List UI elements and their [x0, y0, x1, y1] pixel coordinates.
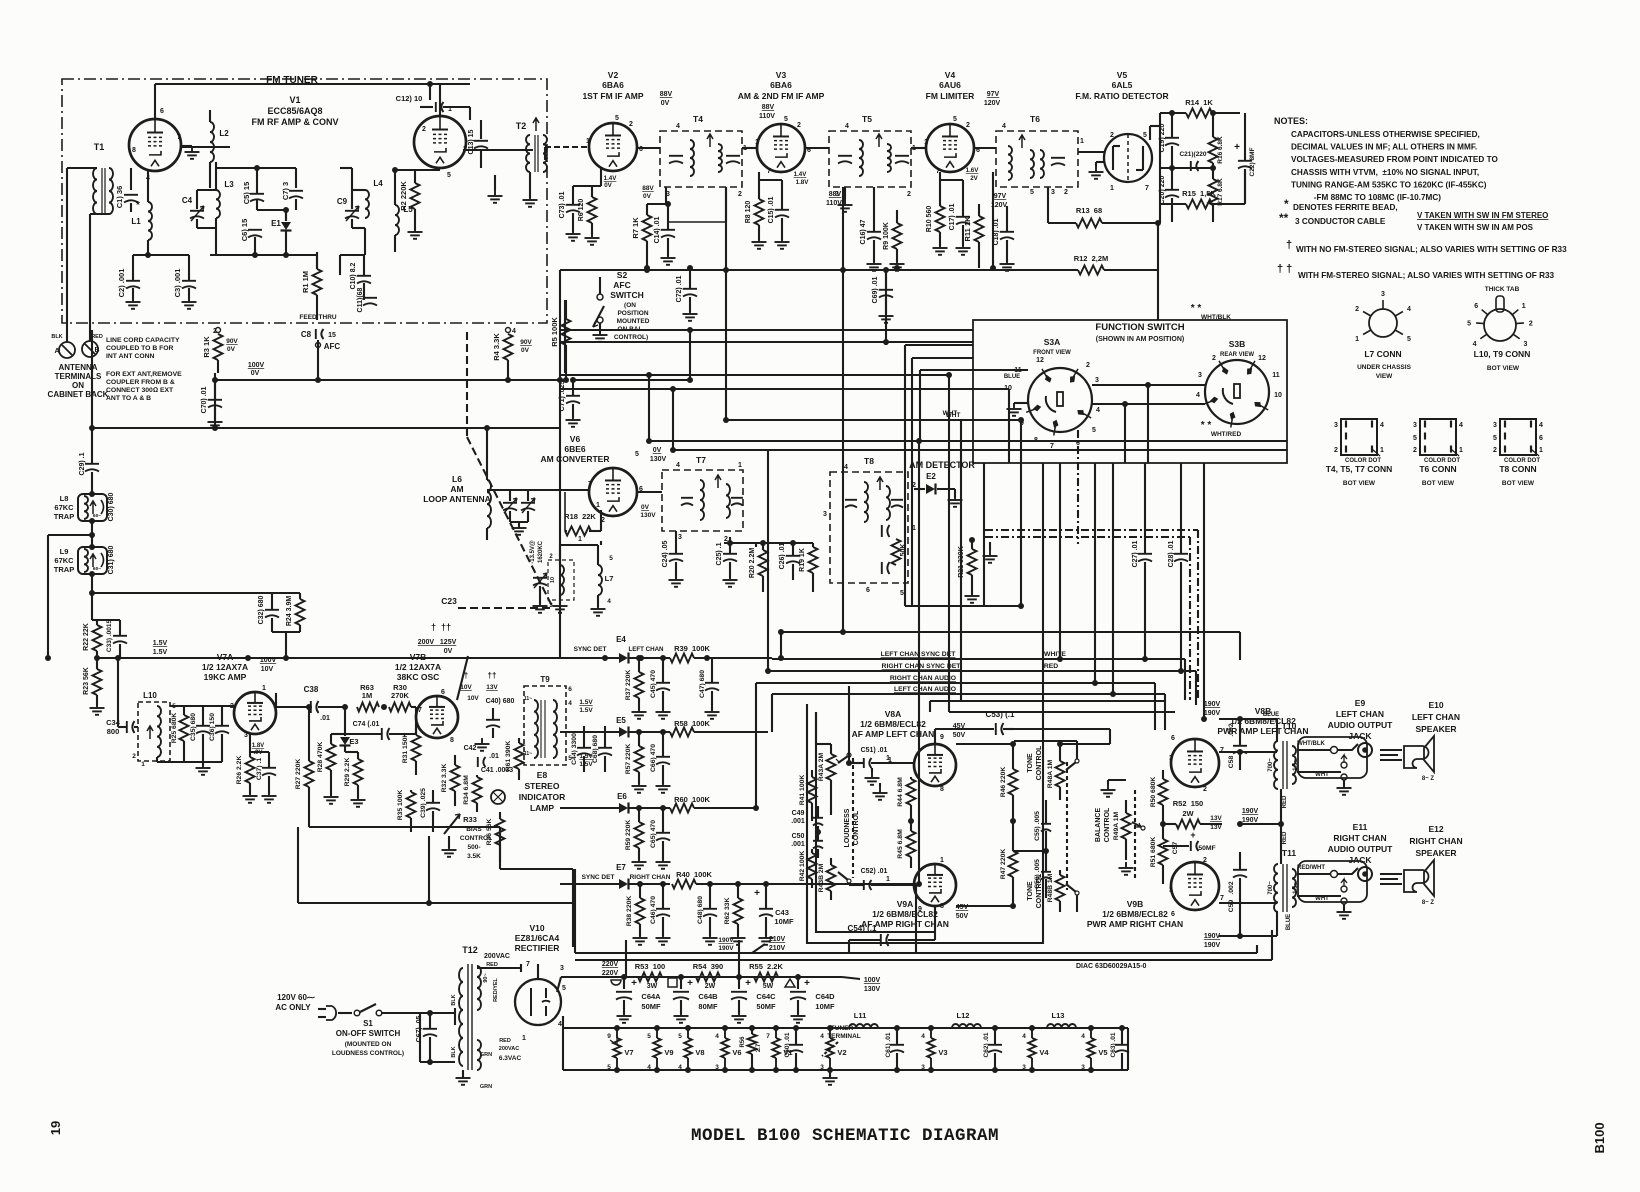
svg-text:3: 3 [835, 191, 839, 198]
svg-text:10V: 10V [460, 684, 472, 691]
svg-text:6: 6 [1171, 735, 1175, 742]
svg-text:V4: V4 [945, 70, 956, 80]
wire [960, 420, 962, 701]
svg-text:700~: 700~ [1268, 758, 1274, 772]
node 210V [752, 936, 785, 953]
svg-text:V8: V8 [695, 1048, 704, 1057]
wire [155, 81, 440, 119]
svg-text:7: 7 [1220, 895, 1224, 902]
svg-text:C60) .01: C60) .01 [784, 1032, 791, 1057]
svg-text:BLUE: BLUE [1263, 712, 1279, 718]
svg-text:60~: 60~ [93, 513, 101, 519]
svg-text:8: 8 [940, 903, 944, 910]
capacitor C22 8MF [1234, 113, 1256, 202]
wire [778, 632, 784, 661]
resistor R34 6.8M [463, 775, 482, 812]
svg-text:R3 1K: R3 1K [202, 336, 211, 358]
svg-text:WHT/BLK: WHT/BLK [1201, 314, 1231, 321]
capacitor C67 .05 [416, 1013, 437, 1062]
svg-text:BLUE: BLUE [1286, 914, 1292, 930]
resistor R55 2.2K 5W [749, 962, 783, 990]
oscillator coil [548, 554, 574, 609]
heater V5 [1081, 1025, 1107, 1073]
label BLUE bot [1240, 912, 1292, 936]
capacitor C35 680 [190, 706, 210, 762]
connector L7 CONN [1355, 291, 1412, 380]
svg-text:10: 10 [550, 577, 556, 583]
svg-text:††: †† [488, 671, 497, 680]
svg-text:LEFT CHAN: LEFT CHAN [1412, 712, 1460, 722]
svg-text:B100: B100 [1592, 1122, 1607, 1153]
wire [557, 377, 563, 658]
T6 windings [1008, 135, 1065, 180]
wire [805, 148, 926, 212]
svg-text:BALANCE: BALANCE [1095, 808, 1102, 843]
coil L3 [216, 180, 234, 218]
svg-text:1: 1 [1539, 447, 1543, 454]
svg-text:C5) 15: C5) 15 [242, 182, 251, 205]
svg-text:8~ Z: 8~ Z [1422, 776, 1435, 782]
svg-text:FOR EXT ANT,REMOVE: FOR EXT ANT,REMOVE [106, 371, 182, 378]
svg-text:97V: 97V [987, 91, 1000, 98]
label TONE CONTROL upper [1027, 745, 1043, 780]
svg-text:V10: V10 [529, 923, 544, 933]
svg-text:120V: 120V [984, 100, 1001, 107]
svg-text:6BA6: 6BA6 [770, 80, 792, 90]
svg-text:FM RF AMP & CONV: FM RF AMP & CONV [252, 117, 339, 127]
svg-text:2: 2 [1203, 857, 1207, 864]
diagram code [1076, 963, 1147, 970]
net LEFT CHAN AUDIO [894, 686, 956, 693]
svg-text:10MF: 10MF [815, 1002, 835, 1011]
wire [771, 694, 773, 732]
wire [559, 270, 561, 380]
svg-text:C44) 3300: C44) 3300 [571, 733, 578, 765]
svg-text:V5: V5 [1117, 70, 1128, 80]
svg-text:C65) 470: C65) 470 [650, 820, 657, 848]
svg-text:C36) 150: C36) 150 [209, 713, 216, 741]
capacitor C5 15 [242, 182, 264, 205]
svg-text:R31 150K: R31 150K [402, 733, 409, 764]
svg-text:3: 3 [244, 732, 248, 739]
node 220V [602, 961, 619, 977]
svg-text:V1: V1 [289, 95, 300, 105]
svg-text:+: + [804, 978, 810, 989]
svg-text:1: 1 [1080, 138, 1084, 145]
V4 designation [926, 70, 1001, 107]
svg-text:7: 7 [418, 707, 422, 714]
label WHT/RED [1201, 420, 1242, 438]
svg-text:C37) .1: C37) .1 [256, 758, 263, 781]
svg-text:F.M. RATIO DETECTOR: F.M. RATIO DETECTOR [1075, 91, 1168, 101]
tone control R48B [1047, 870, 1065, 912]
svg-text:+: + [1190, 830, 1195, 840]
svg-text:V9: V9 [664, 1048, 673, 1057]
svg-text:AM CONVERTER: AM CONVERTER [541, 454, 610, 464]
diode E6 row [560, 792, 756, 814]
svg-text:R33: R33 [463, 815, 477, 824]
wire [563, 377, 569, 383]
capacitor C53 .1 [935, 710, 1015, 744]
ground [1089, 162, 1105, 179]
note ferrite bead [1284, 197, 1398, 212]
wire fm mesh [216, 162, 296, 193]
svg-text:R59 220K: R59 220K [625, 820, 632, 851]
svg-text:E8: E8 [537, 770, 548, 780]
wire [687, 327, 693, 383]
node 100V 130V [842, 977, 880, 993]
svg-text:C29) .1: C29) .1 [79, 452, 86, 475]
svg-text:R27 220K: R27 220K [295, 759, 302, 790]
wire [1257, 930, 1272, 960]
svg-text:R40 100K: R40 100K [676, 870, 712, 879]
svg-text:JACK: JACK [1348, 855, 1372, 865]
svg-text:VOLTAGES-MEASURED FROM POINT I: VOLTAGES-MEASURED FROM POINT INDICATED T… [1291, 155, 1498, 164]
svg-text:4: 4 [1473, 341, 1477, 348]
svg-text:C32) 680: C32) 680 [258, 595, 265, 624]
wire [816, 712, 831, 744]
svg-text:6.3VAC: 6.3VAC [499, 1055, 522, 1062]
svg-text:V6: V6 [570, 434, 581, 444]
svg-text:C73) .01: C73) .01 [559, 191, 566, 218]
node 100V [248, 362, 265, 377]
svg-text:T7: T7 [696, 455, 706, 465]
svg-text:6: 6 [568, 686, 572, 693]
transformer T4 [660, 114, 747, 198]
svg-text:S2: S2 [617, 270, 628, 280]
svg-text:RED/YEL: RED/YEL [493, 977, 499, 1001]
capacitor C27 .01 [1132, 463, 1152, 659]
tube V1 triode b [414, 106, 467, 179]
transformer T9 [524, 686, 566, 765]
svg-text:9: 9 [607, 1033, 611, 1040]
svg-text:C12) 10: C12) 10 [396, 94, 423, 103]
V2 designation [582, 70, 672, 107]
capacitor C34 800 [106, 655, 138, 736]
loudness wiper b [838, 872, 851, 883]
wire [430, 84, 538, 207]
svg-text:R19 1K: R19 1K [799, 548, 806, 572]
svg-text:C3) .001: C3) .001 [173, 269, 182, 298]
oscillator trimmer [530, 540, 547, 588]
tube V1 triode a [129, 108, 181, 182]
svg-text:R29 2.2K: R29 2.2K [344, 758, 351, 787]
svg-text:11~: 11~ [524, 696, 532, 702]
svg-text:C9: C9 [337, 197, 348, 206]
svg-text:5: 5 [784, 116, 788, 123]
svg-text:0V: 0V [227, 346, 236, 353]
svg-text:L7 CONN: L7 CONN [1364, 349, 1401, 359]
svg-text:50V: 50V [956, 913, 969, 920]
svg-text:FM LIMITER: FM LIMITER [926, 91, 975, 101]
svg-text:C68) 680: C68) 680 [592, 735, 599, 763]
wire [771, 658, 773, 659]
svg-text:V5: V5 [1098, 1048, 1107, 1057]
svg-text:C26) .01: C26) .01 [779, 542, 786, 569]
svg-text:LINE CORD CAPACITY: LINE CORD CAPACITY [106, 337, 180, 344]
svg-text:5: 5 [1493, 435, 1497, 442]
svg-text:3W: 3W [647, 983, 658, 990]
wire [91, 330, 93, 428]
T8 secondary caps [882, 525, 890, 574]
svg-text:0V: 0V [521, 347, 530, 354]
capacitor C61 .01 [885, 1025, 904, 1073]
svg-text:4: 4 [1022, 1033, 1026, 1040]
svg-text:AUDIO OUTPUT: AUDIO OUTPUT [1328, 720, 1394, 730]
svg-text:CONTROL: CONTROL [1104, 807, 1111, 842]
svg-text:5: 5 [953, 116, 957, 123]
svg-text:V8A: V8A [885, 709, 902, 719]
antenna terminal A [51, 334, 75, 358]
coil L5 [395, 188, 413, 252]
capacitor C38 .01 [276, 685, 345, 722]
svg-text:3: 3 [1334, 422, 1338, 429]
wire 100V bus [212, 377, 565, 383]
svg-text:6: 6 [160, 108, 164, 115]
svg-text:-FM 88MC TO 108MC (IF-10.7MC): -FM 88MC TO 108MC (IF-10.7MC) [1291, 193, 1441, 202]
svg-text:3: 3 [921, 1064, 925, 1071]
svg-text:C64B: C64B [698, 992, 718, 1001]
V5 designation [1075, 70, 1168, 101]
resistor R30 270K [389, 683, 416, 712]
svg-text:R28 470K: R28 470K [317, 742, 324, 773]
svg-text:5: 5 [1030, 189, 1034, 196]
svg-text:5: 5 [635, 451, 639, 458]
AC plug [275, 993, 352, 1020]
svg-text:C62) .01: C62) .01 [983, 1032, 990, 1057]
wire [454, 1008, 456, 1025]
dashed link [985, 530, 1198, 700]
resistor R35 100K [397, 790, 416, 832]
svg-text:V9B: V9B [1127, 899, 1144, 909]
wire [573, 168, 601, 186]
svg-text:L7: L7 [605, 574, 614, 583]
svg-text:3: 3 [1198, 372, 1202, 379]
capacitor C43 10MF [754, 884, 794, 945]
svg-text:4: 4 [921, 1033, 925, 1040]
svg-text:SPEAKER: SPEAKER [1415, 724, 1456, 734]
wire [392, 167, 440, 188]
svg-text:L6: L6 [452, 474, 462, 484]
wire [723, 270, 729, 423]
connector L10 T9 CONN [1467, 286, 1533, 372]
svg-text:130V: 130V [864, 986, 881, 993]
svg-text:5: 5 [609, 555, 613, 562]
wire [778, 629, 1240, 660]
svg-text:RED: RED [1044, 663, 1058, 670]
capacitor C44 3300 [571, 726, 591, 772]
connector T6 CONN [1413, 419, 1463, 487]
svg-text:2: 2 [907, 191, 911, 198]
wire [625, 940, 627, 977]
svg-text:C25) .1: C25) .1 [716, 542, 723, 565]
svg-text:LOUDNESS CONTROL): LOUDNESS CONTROL) [332, 1050, 404, 1057]
capacitor C3 .001 [173, 255, 197, 309]
svg-text:MODEL B100 SCHEMATIC DIAGRAM: MODEL B100 SCHEMATIC DIAGRAM [691, 1126, 999, 1146]
svg-text:L10: L10 [143, 691, 157, 700]
svg-text:V3: V3 [938, 1048, 947, 1057]
svg-text:3 CONDUCTOR CABLE: 3 CONDUCTOR CABLE [1295, 217, 1386, 226]
V2 grid wire [545, 147, 589, 160]
wire trap link [45, 535, 51, 661]
capacitor C56 .005 [1013, 848, 1051, 898]
transformer T7 [662, 455, 743, 543]
svg-text:LAMP: LAMP [530, 803, 554, 813]
svg-text:E11: E11 [1353, 822, 1368, 832]
tube V8B [1169, 735, 1224, 793]
svg-text:†: † [1286, 239, 1292, 251]
label WHT/BLK [1191, 303, 1232, 321]
tube V10 [515, 979, 561, 1025]
svg-text:1.4V: 1.4V [794, 171, 808, 178]
svg-text:2: 2 [1212, 355, 1216, 362]
svg-text:7: 7 [526, 961, 530, 968]
svg-text:R41 100K: R41 100K [799, 775, 806, 806]
svg-text:LOUDNESS: LOUDNESS [844, 808, 851, 847]
coil L7 [591, 545, 614, 616]
label WHT/BLK [1297, 741, 1325, 747]
heater V4 [1022, 1025, 1049, 1073]
resistor R45 6.8M [897, 821, 916, 868]
svg-text:C7) 3: C7) 3 [281, 182, 290, 200]
antenna caption [48, 363, 109, 399]
svg-text:V2: V2 [837, 1048, 846, 1057]
svg-text:2: 2 [1529, 320, 1533, 327]
svg-text:V TAKEN WITH SW IN FM STEREO: V TAKEN WITH SW IN FM STEREO [1417, 211, 1548, 220]
svg-text:JACK: JACK [1348, 731, 1372, 741]
T8 50K resistor [892, 539, 908, 565]
tone wiper b [1066, 884, 1079, 912]
capacitor C13 15 [468, 120, 488, 168]
svg-text:100V: 100V [864, 977, 881, 984]
ground [488, 175, 503, 203]
svg-text:L8: L8 [60, 494, 69, 503]
svg-text:S3B: S3B [1229, 339, 1246, 349]
svg-text:4: 4 [676, 123, 680, 130]
wire net bus4 [772, 691, 1165, 730]
wire [575, 959, 1272, 961]
dagger voltages [418, 622, 457, 655]
capacitor C74 .01 [342, 704, 416, 740]
svg-text:C31) 680: C31) 680 [108, 545, 115, 574]
svg-text:V7A: V7A [217, 652, 234, 662]
svg-text:R43A 2M: R43A 2M [818, 752, 825, 781]
wire [1237, 821, 1281, 827]
svg-text:R20 2.2M: R20 2.2M [749, 548, 756, 579]
capacitor C49 .001 [791, 806, 823, 832]
jack E11 contacts [1297, 879, 1352, 919]
svg-text:6BA6: 6BA6 [602, 80, 624, 90]
svg-text:T6: T6 [1030, 114, 1040, 124]
net WHITE [1044, 651, 1066, 658]
wire [1150, 113, 1245, 204]
resistor R17 6.8K [1209, 165, 1225, 222]
svg-text:3.5K: 3.5K [467, 853, 481, 860]
loudness dashed link [852, 758, 854, 878]
svg-text:R44 6.8M: R44 6.8M [897, 777, 904, 807]
svg-text:+: + [687, 978, 693, 989]
svg-text:1: 1 [886, 755, 890, 762]
capacitor C42 .01 [464, 745, 499, 767]
rotary switch S3B [1203, 360, 1269, 427]
svg-text:C49: C49 [792, 810, 805, 817]
svg-text:R16 6.8K: R16 6.8K [1217, 136, 1224, 164]
svg-text:4: 4 [1002, 123, 1006, 130]
heater V3 [921, 1025, 947, 1073]
svg-text:220V: 220V [602, 961, 619, 968]
svg-text:2.7: 2.7 [756, 1043, 762, 1052]
node 1.5V pair [579, 699, 593, 768]
switch S2 [593, 277, 608, 342]
resistor R27 220K [295, 704, 314, 827]
note V taken FM [1417, 211, 1548, 232]
svg-text:R47 220K: R47 220K [1000, 849, 1007, 880]
wire 1.5V bus [97, 655, 560, 661]
svg-text:C40) 680: C40) 680 [486, 698, 515, 705]
svg-text:67KC: 67KC [54, 503, 74, 512]
svg-text:2: 2 [1493, 447, 1497, 454]
wire [956, 741, 1016, 909]
svg-text:C69) .01: C69) .01 [872, 276, 879, 303]
T7 windings [681, 475, 743, 520]
svg-text:4: 4 [715, 1033, 719, 1040]
wire [340, 228, 365, 275]
wire [560, 329, 973, 331]
tube V6 [588, 451, 643, 516]
svg-text:2W: 2W [1182, 809, 1194, 818]
wire [1059, 463, 1061, 659]
svg-text:SWITCH: SWITCH [610, 290, 644, 300]
svg-text:CHASSIS WITH VTVM, ±10% NO SI: CHASSIS WITH VTVM, ±10% NO SIGNAL INPUT, [1291, 168, 1479, 177]
svg-text:3: 3 [1381, 291, 1385, 298]
transformer T1 [93, 142, 113, 214]
resistor R4 3.3K [492, 328, 532, 384]
svg-text:(SHOWN IN AM POSITION): (SHOWN IN AM POSITION) [1096, 336, 1184, 343]
resistor R57 220K [625, 732, 647, 793]
svg-text:3: 3 [1523, 341, 1527, 348]
note dagger2 [1277, 263, 1555, 280]
capacitor C59 .002 [1228, 852, 1247, 939]
svg-text:.001: .001 [791, 818, 805, 825]
svg-text:.002: .002 [1228, 723, 1235, 736]
capacitor C41 .0033 [481, 767, 513, 774]
svg-text:L4: L4 [373, 179, 383, 188]
wire dagger arrow [457, 656, 468, 700]
svg-text:T4: T4 [693, 114, 703, 124]
wire [885, 270, 887, 345]
svg-text:4: 4 [1407, 306, 1411, 313]
svg-text:R36 56K: R36 56K [486, 818, 493, 845]
svg-text:E1: E1 [271, 219, 281, 228]
marker triangle cap C64D [785, 977, 835, 1023]
svg-text:80MF: 80MF [698, 1002, 718, 1011]
notes heading [1274, 116, 1308, 126]
svg-text:R50 680K: R50 680K [1150, 777, 1157, 808]
wire [753, 683, 759, 811]
wire B+ line [557, 974, 842, 992]
svg-text:LOOP ANTENNA: LOOP ANTENNA [423, 494, 491, 504]
capacitor C21 220 [1179, 151, 1206, 171]
wire [883, 339, 889, 345]
svg-text:ECC85/6AQ8: ECC85/6AQ8 [267, 106, 322, 116]
jack E9 body [1298, 737, 1367, 778]
svg-text:1.5V: 1.5V [579, 707, 593, 714]
svg-text:0V: 0V [251, 370, 260, 377]
svg-text:C64D: C64D [815, 992, 835, 1001]
svg-text:COUPLER FROM B &: COUPLER FROM B & [106, 379, 175, 386]
svg-text:1: 1 [738, 462, 742, 469]
svg-text:V4: V4 [1039, 1048, 1049, 1057]
